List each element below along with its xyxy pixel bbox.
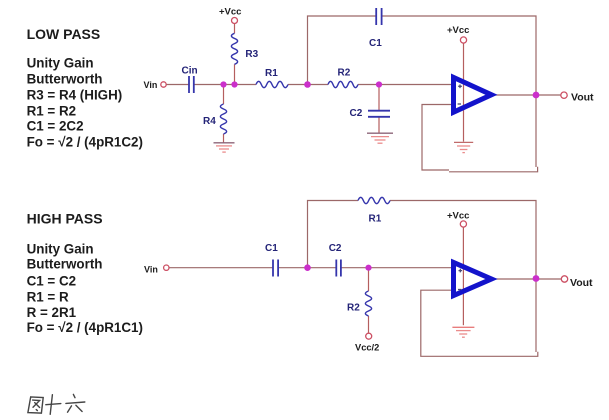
svg-text:Cin: Cin <box>182 66 198 77</box>
svg-text:C2: C2 <box>329 243 342 254</box>
svg-text:C2: C2 <box>350 108 363 119</box>
svg-text:R1: R1 <box>265 68 278 79</box>
svg-text:Vout: Vout <box>570 277 593 289</box>
svg-text:C1 = C2: C1 = C2 <box>27 273 77 288</box>
svg-text:Unity Gain: Unity Gain <box>27 242 94 257</box>
svg-text:C1: C1 <box>369 38 382 49</box>
svg-text:Butterworth: Butterworth <box>27 72 103 87</box>
svg-text:R1: R1 <box>369 214 382 225</box>
svg-text:Vin: Vin <box>144 265 158 275</box>
svg-text:C1 = 2C2: C1 = 2C2 <box>27 119 84 134</box>
svg-text:LOW PASS: LOW PASS <box>27 26 101 42</box>
svg-text:R3: R3 <box>245 49 258 60</box>
svg-text:C1: C1 <box>265 243 278 254</box>
svg-text:Fo = √2 / (4pR1C2): Fo = √2 / (4pR1C2) <box>27 134 143 149</box>
svg-text:+Vcc: +Vcc <box>219 6 241 17</box>
svg-text:R4: R4 <box>203 116 216 127</box>
svg-text:Vin: Vin <box>144 80 158 90</box>
svg-text:+Vcc: +Vcc <box>447 210 469 221</box>
svg-text:Vout: Vout <box>571 92 594 104</box>
svg-text:R = 2R1: R = 2R1 <box>27 305 77 320</box>
svg-text:R2: R2 <box>347 303 360 314</box>
svg-text:R2: R2 <box>338 67 351 78</box>
svg-text:R3 = R4 (HIGH): R3 = R4 (HIGH) <box>27 88 123 103</box>
svg-text:Fo = √2 / (4pR1C1): Fo = √2 / (4pR1C1) <box>27 320 143 335</box>
svg-text:Vcc/2: Vcc/2 <box>355 343 379 353</box>
svg-text:Butterworth: Butterworth <box>27 257 103 272</box>
svg-text:HIGH PASS: HIGH PASS <box>27 211 103 227</box>
svg-text:R1 = R: R1 = R <box>27 289 69 304</box>
svg-text:Unity Gain: Unity Gain <box>27 56 94 71</box>
svg-text:+Vcc: +Vcc <box>447 25 469 36</box>
svg-text:R1 = R2: R1 = R2 <box>27 103 77 118</box>
